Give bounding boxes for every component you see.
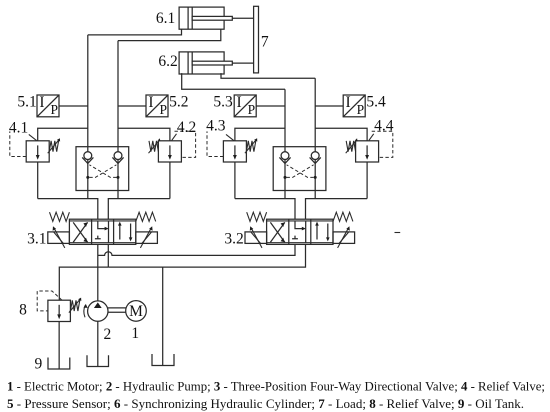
label 7	[261, 33, 269, 50]
oil tank 9 (under relief valve 8)	[48, 358, 70, 370]
oil tank (return line)	[152, 354, 174, 366]
wire node A to valve 3.1 port A	[38, 199, 98, 220]
wire cap-side 6.2 to node D	[182, 73, 285, 89]
label 4.1 leader	[29, 134, 37, 140]
directional valve 3.2 body	[267, 219, 333, 244]
label 4.3	[206, 117, 226, 134]
label 3.2	[224, 231, 243, 248]
wire valve 3.1 port T down	[107, 244, 109, 267]
valve 3.1 left spring	[50, 212, 70, 221]
wire vertical node C	[314, 78, 316, 198]
svg-text:1: 1	[131, 325, 139, 342]
label 8	[19, 301, 27, 318]
relief valve 4.4 outlet wire	[366, 162, 368, 199]
svg-text:I: I	[346, 94, 351, 111]
svg-text:4.2: 4.2	[177, 119, 196, 136]
valve 3.1 right spring	[136, 212, 156, 221]
svg-text:8: 8	[19, 301, 27, 318]
wire pressure branch to valve 3.2 port P (with crossover hop)	[98, 244, 295, 255]
svg-text:4.4: 4.4	[374, 117, 394, 134]
pressure sensor 5.2	[146, 94, 168, 117]
label 5.1	[17, 93, 36, 110]
dual pilot-operated check valve block (right)	[273, 147, 326, 191]
valve 3.1 right proportional solenoid	[136, 226, 158, 248]
relief valve 4.2 pilot line	[175, 131, 196, 157]
wire sensor 5.1 to node A	[59, 105, 88, 107]
label 4.3 leader	[226, 134, 234, 140]
svg-text:7: 7	[261, 33, 269, 50]
tank return wire to valve 3.2 port T	[108, 244, 305, 267]
pump rotation arrow	[84, 304, 88, 317]
directional valve 3.1 body	[69, 219, 135, 244]
pump outlet pipe	[97, 321, 99, 366]
valve 3.2 left proportional solenoid	[245, 226, 267, 248]
label 6.2	[158, 53, 177, 70]
label 5.4	[366, 93, 386, 110]
pressure sensor 5.1	[37, 94, 59, 117]
relief valve 4.3	[223, 138, 257, 162]
svg-text:P: P	[357, 102, 365, 117]
wire vertical node A	[87, 35, 89, 199]
relief valve 4.3 pilot line	[207, 131, 223, 156]
relief valve 8 pilot line	[37, 291, 62, 311]
synchronizing hydraulic cylinder 6.1	[179, 7, 254, 29]
tank return branch to oil tank	[162, 267, 164, 365]
svg-text:I: I	[148, 94, 153, 111]
relief valve 4.1 inlet wire	[38, 128, 88, 141]
wire sensor 5.4 to node C	[315, 105, 343, 107]
svg-text:4.3: 4.3	[206, 117, 226, 134]
svg-text:3.2: 3.2	[224, 231, 243, 248]
svg-text:6.1: 6.1	[156, 10, 175, 27]
pressure sensor 5.3	[234, 94, 256, 117]
relief valve 4.3 inlet wire	[235, 128, 285, 141]
label 6.1	[156, 10, 175, 27]
wire rod-side 6.2 to node C	[221, 73, 315, 78]
wire node B to valve 3.1 port B	[108, 199, 170, 220]
wire valve 3.1 port P to pump	[97, 244, 99, 301]
drive shaft	[108, 308, 126, 312]
label 4.1	[9, 120, 28, 137]
label 9	[35, 356, 43, 373]
load 7	[254, 6, 259, 73]
svg-text:5.3: 5.3	[213, 93, 233, 110]
relief valve 4.2	[149, 138, 182, 162]
oil tank (under pump)	[87, 355, 109, 366]
label 4.2	[177, 119, 196, 136]
relief valve 4.4	[346, 138, 379, 162]
relief valve 4.4 pilot line	[372, 131, 393, 157]
valve 3.2 right spring	[333, 212, 353, 221]
label 1	[131, 325, 139, 342]
wire sensor 5.2 to node B	[118, 105, 146, 107]
label 4.4 leader	[369, 134, 374, 141]
wire sensor 5.3 to node D	[256, 105, 285, 107]
relief valve 4.2 inlet wire	[118, 128, 170, 141]
svg-text:5.2: 5.2	[169, 93, 188, 110]
wire node D to valve 3.2 port A	[235, 199, 295, 220]
valve 3.2 right proportional solenoid	[333, 226, 355, 248]
dual pilot-operated check valve block (left)	[76, 147, 129, 191]
svg-text:I: I	[39, 94, 44, 111]
relief valve 4.3 outlet wire	[234, 162, 236, 199]
relief valve 4.4 inlet wire	[315, 128, 367, 141]
label 5.2	[169, 93, 188, 110]
svg-text:9: 9	[35, 356, 43, 373]
svg-text:P: P	[248, 102, 256, 117]
svg-text:5 - Pressure Sensor; 6 - Synch: 5 - Pressure Sensor; 6 - Synchronizing H…	[7, 396, 524, 411]
relief valve 8 outlet to tank	[58, 322, 60, 370]
label 5.3	[213, 93, 233, 110]
svg-text:I: I	[237, 94, 242, 111]
relief valve 4.1	[26, 138, 60, 162]
relief valve 4.1 outlet wire	[37, 162, 39, 199]
label 4.2 leader	[172, 134, 177, 141]
svg-text:2: 2	[104, 326, 112, 343]
tank return wire to relief valve 8	[59, 267, 108, 300]
wire vertical node D	[284, 89, 286, 198]
label 4.4	[374, 117, 394, 134]
svg-text:5.1: 5.1	[17, 93, 36, 110]
valve 3.2 left spring	[247, 212, 267, 221]
relief valve 4.2 outlet wire	[169, 162, 171, 199]
svg-text:5.4: 5.4	[366, 93, 386, 110]
stray dash mark	[395, 232, 401, 234]
svg-text:P: P	[50, 102, 58, 117]
wire rod-side 6.1 to node B	[118, 29, 221, 40]
relief valve 4.1 pilot line	[10, 131, 26, 156]
wire vertical node B	[117, 41, 119, 199]
relief valve 8	[48, 298, 81, 322]
svg-text:3.1: 3.1	[27, 231, 46, 248]
svg-text:1 - Electric Motor; 2 - Hydrau: 1 - Electric Motor; 2 - Hydraulic Pump; …	[7, 379, 545, 394]
label 3.1	[27, 231, 46, 248]
synchronizing hydraulic cylinder 6.2	[179, 52, 254, 74]
caption line 1	[7, 379, 545, 394]
pressure sensor 5.4	[343, 94, 365, 117]
svg-text:M: M	[129, 303, 143, 320]
wire cap-side 6.1 to node A	[88, 29, 182, 35]
svg-text:4.1: 4.1	[9, 120, 28, 137]
hydraulic pump 2	[88, 301, 108, 321]
svg-text:6.2: 6.2	[158, 53, 177, 70]
svg-text:P: P	[159, 102, 167, 117]
label 2	[104, 326, 112, 343]
wire node C to valve 3.2 port B	[306, 199, 368, 220]
valve 3.1 left proportional solenoid	[48, 226, 70, 248]
caption line 2	[7, 396, 524, 411]
electric motor 1	[126, 301, 147, 322]
